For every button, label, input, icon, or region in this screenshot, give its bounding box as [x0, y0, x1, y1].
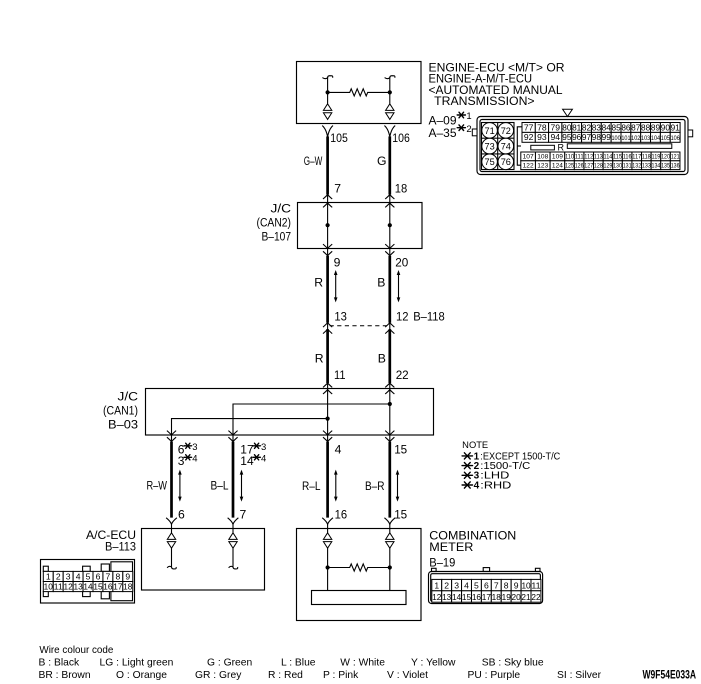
female terminal fork at A/C-ECU pin6	[166, 518, 177, 525]
svg-text:96: 96	[572, 132, 581, 142]
connector symbol triangles right (ECU pin 106)	[386, 104, 394, 120]
svg-text:2: 2	[466, 124, 471, 135]
connector A-09/A-35 pinout drawing	[472, 109, 692, 174]
svg-text:R : Red: R : Red	[268, 670, 303, 681]
svg-text:4: 4	[192, 453, 197, 464]
female terminal fork at A/C-ECU pin7	[228, 518, 239, 525]
svg-text:R–L: R–L	[302, 479, 321, 493]
svg-text:3: 3	[454, 581, 459, 591]
svg-text:85: 85	[611, 122, 620, 132]
female terminal fork pin 105	[322, 126, 333, 137]
svg-text:125: 125	[565, 163, 574, 170]
internal wire left through CAN2	[327, 203, 329, 249]
svg-text:4: 4	[474, 480, 480, 491]
meter internal entry	[389, 524, 391, 533]
svg-text:B–107: B–107	[262, 230, 292, 244]
wire R (13 to 11)	[326, 329, 329, 383]
svg-text:3: 3	[66, 571, 71, 581]
COMBINATION METER unit box	[297, 529, 422, 621]
svg-text:1: 1	[434, 581, 439, 591]
pin label 14 *4	[240, 453, 266, 468]
svg-text:4: 4	[76, 571, 81, 581]
svg-text:4: 4	[335, 442, 342, 456]
meter internal wires to bus bar	[327, 568, 329, 591]
svg-text:108: 108	[537, 154, 548, 161]
svg-text:B–118: B–118	[413, 309, 445, 323]
A/C-ECU label	[86, 529, 136, 554]
internal wire left (ECU)	[327, 77, 329, 103]
CAN1 internal branch lower (to R-W drop)	[172, 419, 328, 435]
meter internal bus bar	[312, 591, 407, 605]
connector designation A-09 *1	[429, 111, 472, 127]
connector chevrons at J/C CAN1 top, left wire	[323, 383, 332, 394]
svg-text:J/C: J/C	[118, 389, 139, 403]
svg-text:B–R: B–R	[365, 479, 385, 493]
svg-text:B–03: B–03	[108, 417, 138, 431]
keyway slot right	[567, 144, 672, 149]
svg-text:11: 11	[334, 368, 346, 382]
svg-text:11: 11	[54, 583, 64, 592]
svg-text:90: 90	[661, 122, 670, 132]
svg-text:16: 16	[472, 593, 482, 602]
inline connector B-118 chevrons right	[385, 323, 394, 334]
svg-text:V : Violet: V : Violet	[387, 670, 428, 681]
svg-text:LG : Light green: LG : Light green	[100, 658, 174, 669]
svg-text:16: 16	[103, 583, 113, 592]
svg-text:1: 1	[466, 111, 471, 122]
wire G-W (pin105 to J/C)	[326, 136, 329, 194]
svg-text:101: 101	[621, 135, 630, 142]
svg-text:109: 109	[552, 154, 563, 161]
svg-text:105: 105	[330, 131, 348, 145]
svg-text:107: 107	[523, 154, 534, 161]
terminal circle 71	[482, 123, 498, 139]
pin row 92-106	[522, 132, 680, 142]
left latch tab	[472, 129, 477, 136]
svg-text:8: 8	[504, 581, 509, 591]
circular terminals grid	[482, 123, 515, 170]
direction arrow B-L	[240, 470, 244, 502]
junction dot on wire B (CAN1)	[388, 402, 392, 406]
svg-text:Y : Yellow: Y : Yellow	[411, 658, 456, 669]
svg-text:7: 7	[240, 508, 247, 522]
pin label 6 *3	[178, 442, 198, 457]
svg-text:121: 121	[671, 154, 680, 161]
svg-text:130: 130	[613, 163, 622, 170]
svg-text:6: 6	[178, 508, 185, 522]
svg-text:71: 71	[485, 125, 495, 136]
svg-text:79: 79	[550, 122, 560, 132]
svg-text:115: 115	[613, 154, 622, 161]
internal pigtail left	[322, 76, 332, 79]
svg-text:75: 75	[485, 156, 495, 167]
svg-text:82: 82	[582, 122, 591, 132]
svg-text:SI : Silver: SI : Silver	[557, 670, 602, 681]
svg-text:74: 74	[501, 141, 511, 152]
svg-text:18: 18	[395, 181, 408, 195]
svg-text:METER: METER	[429, 540, 473, 554]
junction dot right (ECU)	[388, 90, 392, 94]
connector chevrons at J/C CAN1 bottom, B-R wire	[385, 431, 394, 442]
pin row 77-91	[522, 122, 680, 132]
terminal circle 76	[498, 154, 514, 170]
wire colour code legend	[39, 645, 602, 681]
svg-text:14: 14	[83, 583, 93, 592]
connector chevrons at J/C CAN1 bottom, R-L wire	[323, 431, 332, 442]
svg-text:22: 22	[531, 593, 541, 602]
NOTE block	[462, 440, 560, 491]
direction arrow R-W	[178, 470, 182, 502]
svg-text:B–113: B–113	[105, 540, 136, 553]
svg-text:15: 15	[462, 593, 472, 602]
svg-text:O : Orange: O : Orange	[116, 670, 167, 681]
internal pigtail right	[385, 76, 395, 79]
svg-text:102: 102	[631, 135, 640, 142]
svg-text:7: 7	[334, 181, 341, 195]
internal wire right (ECU)	[389, 77, 391, 103]
female terminal fork at meter pin15	[384, 518, 395, 525]
wire B (20 to 12)	[388, 256, 391, 323]
svg-text:89: 89	[651, 122, 660, 132]
ENGINE-ECU unit box	[297, 62, 422, 124]
svg-text:99: 99	[602, 132, 611, 142]
svg-text:15: 15	[394, 508, 407, 522]
connector chevrons at J/C CAN1 bottom, B-L wire	[228, 431, 237, 442]
junction dot right (CAN2)	[388, 223, 392, 227]
svg-text:73: 73	[485, 141, 495, 152]
svg-text:113: 113	[594, 154, 603, 161]
svg-text:93: 93	[537, 132, 547, 142]
svg-text:95: 95	[562, 132, 571, 142]
svg-text:76: 76	[501, 156, 511, 167]
svg-text:G : Green: G : Green	[207, 658, 252, 669]
connector chevrons at J/C CAN2 top, right wire	[385, 195, 394, 208]
svg-text:136: 136	[671, 163, 680, 170]
svg-text:W9F54E033A: W9F54E033A	[643, 668, 697, 682]
svg-text:80: 80	[562, 122, 571, 132]
svg-text:6: 6	[96, 571, 101, 581]
svg-text:14: 14	[240, 454, 254, 468]
tabs	[43, 566, 48, 571]
svg-text:10: 10	[521, 581, 530, 591]
svg-text:4: 4	[261, 453, 266, 464]
connector chevrons at J/C CAN2 bottom, left wire	[323, 244, 332, 256]
svg-text:124: 124	[552, 163, 563, 170]
svg-text:127: 127	[584, 163, 593, 170]
svg-text:13: 13	[334, 309, 347, 323]
svg-text:128: 128	[594, 163, 603, 170]
svg-text:9: 9	[334, 256, 341, 270]
A/C-ECU internal entry pin 6	[171, 524, 173, 533]
svg-text:72: 72	[501, 125, 511, 136]
svg-text:17: 17	[113, 583, 123, 592]
svg-text:B: B	[377, 275, 385, 289]
svg-text:81: 81	[572, 122, 581, 132]
svg-text:92: 92	[524, 132, 534, 142]
pin row 10-18	[43, 582, 133, 592]
A/C-ECU internal entry pin 7	[232, 524, 234, 533]
svg-text:98: 98	[592, 132, 601, 142]
svg-text:105: 105	[661, 135, 670, 142]
junction dot right (meter)	[388, 565, 392, 569]
svg-text:B–L: B–L	[211, 478, 229, 492]
internal wire right through CAN2	[389, 203, 391, 249]
svg-text:97: 97	[582, 132, 591, 142]
svg-text:133: 133	[642, 163, 651, 170]
pin label 3 *4	[178, 453, 198, 468]
svg-text:21: 21	[521, 593, 531, 602]
svg-text:18: 18	[123, 583, 133, 592]
svg-text:2: 2	[444, 581, 449, 591]
svg-text:129: 129	[604, 163, 613, 170]
svg-text:11: 11	[531, 581, 540, 591]
svg-text:116: 116	[623, 154, 632, 161]
COMBINATION METER label	[429, 528, 516, 569]
pin row 1-9	[43, 571, 132, 581]
rail bracket	[517, 127, 521, 165]
svg-text:R: R	[314, 275, 323, 289]
connector chevrons at J/C CAN1 bottom, R-W wire	[167, 431, 176, 442]
svg-text:103: 103	[641, 135, 650, 142]
svg-text:(CAN2): (CAN2)	[257, 216, 292, 230]
connector symbol triangles left (ECU pin 105)	[323, 104, 331, 120]
svg-text:15: 15	[394, 442, 407, 456]
junction dot left (ECU)	[326, 90, 330, 94]
svg-text:84: 84	[602, 122, 611, 132]
svg-text:17: 17	[482, 593, 492, 602]
svg-text:G: G	[377, 154, 386, 168]
svg-text:14: 14	[452, 593, 462, 602]
direction arrow right	[397, 270, 401, 302]
svg-text:88: 88	[641, 122, 650, 132]
svg-text:20: 20	[512, 593, 522, 602]
svg-text:G–W: G–W	[304, 154, 323, 168]
tabs	[432, 568, 437, 571]
svg-text:B : Black: B : Black	[39, 658, 80, 669]
svg-text:12: 12	[432, 593, 442, 602]
J/C CAN2 label	[257, 202, 292, 244]
svg-text:77: 77	[524, 122, 534, 132]
svg-text:22: 22	[396, 368, 409, 382]
svg-text:3: 3	[192, 442, 197, 453]
female terminal fork pin 106	[384, 126, 395, 137]
svg-text:20: 20	[395, 256, 408, 270]
svg-text:112: 112	[584, 154, 593, 161]
svg-text:114: 114	[604, 154, 613, 161]
junction dot on wire R (CAN1)	[326, 417, 330, 421]
svg-text:13: 13	[73, 583, 83, 592]
svg-text:126: 126	[575, 163, 584, 170]
terminal circle 75	[482, 154, 498, 170]
junction dot left (meter)	[326, 565, 330, 569]
direction arrow left	[334, 270, 338, 302]
CAN1 internal branch upper (to B-L drop)	[233, 404, 390, 435]
svg-text:PU : Purple: PU : Purple	[468, 670, 521, 681]
svg-text:91: 91	[671, 122, 680, 132]
svg-text:87: 87	[631, 122, 640, 132]
svg-text:SB : Sky blue: SB : Sky blue	[482, 658, 544, 669]
wire R-W	[170, 442, 173, 518]
svg-text:120: 120	[661, 154, 670, 161]
svg-text:86: 86	[621, 122, 630, 132]
svg-text:100: 100	[611, 135, 620, 142]
terminal circle 73	[482, 138, 498, 154]
svg-text:15: 15	[93, 583, 103, 592]
svg-text:B–19: B–19	[429, 556, 455, 570]
terminating resistor inside meter	[328, 564, 390, 571]
svg-text:3: 3	[178, 454, 185, 468]
J/C CAN1 label	[103, 389, 138, 431]
connector chevrons at J/C CAN1 top, right wire	[385, 383, 394, 394]
svg-text:110: 110	[565, 154, 574, 161]
svg-text:6: 6	[484, 581, 489, 591]
svg-text:122: 122	[523, 163, 534, 170]
keyway slot left	[531, 145, 555, 150]
svg-text:134: 134	[652, 163, 661, 170]
svg-text:BR : Brown: BR : Brown	[39, 670, 91, 681]
pin label 17 *3	[240, 442, 266, 457]
svg-text::RHD: :RHD	[480, 480, 511, 491]
wire R-L	[326, 442, 329, 518]
connector B-113 pinout drawing	[41, 560, 135, 604]
svg-text:7: 7	[494, 581, 499, 591]
svg-text:R–W: R–W	[147, 478, 168, 492]
wire B (12 to 22)	[388, 329, 391, 383]
meter internal entry	[327, 524, 329, 533]
svg-text:NOTE: NOTE	[462, 440, 488, 450]
svg-text:10: 10	[44, 583, 54, 592]
internal wire R through CAN1	[327, 390, 329, 435]
junction dot left (CAN2)	[326, 223, 330, 227]
inline connector B-118 chevrons left	[323, 323, 332, 334]
svg-text:12: 12	[64, 583, 74, 592]
pin row 122-136	[521, 161, 680, 170]
A/C-ECU unit box	[142, 529, 265, 591]
svg-text:L : Blue: L : Blue	[281, 658, 316, 669]
wire B-L	[232, 442, 235, 518]
svg-text:Wire colour code: Wire colour code	[39, 645, 113, 656]
svg-text:106: 106	[392, 131, 410, 145]
svg-text:TRANSMISSION>: TRANSMISSION>	[434, 94, 534, 108]
svg-text:12: 12	[396, 309, 409, 323]
svg-text:13: 13	[442, 593, 452, 602]
svg-text:16: 16	[335, 508, 348, 522]
svg-text:94: 94	[550, 132, 560, 142]
position pointer triangle (pin 80)	[563, 109, 573, 116]
svg-text:104: 104	[651, 135, 660, 142]
svg-text:2: 2	[56, 571, 61, 581]
svg-text:GR : Grey: GR : Grey	[195, 670, 242, 681]
terminal circle 72	[498, 123, 514, 139]
svg-text:A–35: A–35	[429, 126, 457, 140]
connector B-19 pinout drawing	[429, 568, 543, 604]
svg-text:117: 117	[632, 154, 641, 161]
wire G (pin106 to J/C)	[388, 136, 391, 194]
svg-text:1: 1	[46, 571, 51, 581]
svg-text:(CAN1): (CAN1)	[103, 403, 138, 417]
terminating resistor inside ENGINE-ECU	[328, 89, 390, 96]
wire R (9 to 13)	[326, 256, 329, 323]
svg-text:9: 9	[125, 571, 130, 581]
svg-text:8: 8	[115, 571, 120, 581]
svg-text:9: 9	[514, 581, 519, 591]
svg-text:78: 78	[537, 122, 547, 132]
svg-text:5: 5	[474, 581, 479, 591]
svg-text:R: R	[315, 351, 324, 365]
svg-text:P : Pink: P : Pink	[323, 670, 359, 681]
svg-text:W : White: W : White	[340, 658, 385, 669]
connector chevrons at J/C CAN2 top, left wire	[323, 195, 332, 208]
terminal circle 74	[498, 138, 514, 154]
unit name text	[429, 61, 565, 109]
direction arrow R-L	[334, 470, 338, 502]
J/C (CAN2) B-107 joint connector box	[298, 203, 423, 249]
B-118 same-connector dashed tie line	[330, 325, 388, 327]
svg-text:J/C: J/C	[271, 202, 292, 216]
svg-text:131: 131	[623, 163, 632, 170]
wire B-R	[388, 442, 391, 518]
connector designation A-35 *2	[429, 124, 472, 140]
female terminal fork at meter pin16	[322, 518, 333, 525]
connector chevrons at J/C CAN2 bottom, right wire	[385, 244, 394, 256]
svg-text:4: 4	[464, 581, 469, 591]
svg-text:R: R	[557, 143, 564, 153]
svg-text:7: 7	[106, 571, 111, 581]
svg-text:3: 3	[261, 442, 266, 453]
right latch tab	[688, 130, 693, 137]
svg-text:5: 5	[86, 571, 91, 581]
pin row 12-22	[432, 591, 541, 602]
svg-text:B: B	[378, 351, 386, 365]
pin row 107-121	[521, 152, 680, 161]
svg-text:135: 135	[661, 163, 670, 170]
svg-text:83: 83	[592, 122, 601, 132]
right key block	[111, 562, 133, 601]
pin row 1-11	[432, 579, 541, 590]
svg-text:18: 18	[492, 593, 502, 602]
svg-text:119: 119	[652, 154, 661, 161]
direction arrow B-R	[396, 470, 400, 502]
internal wire B through CAN1	[389, 390, 391, 435]
svg-text:19: 19	[502, 593, 512, 602]
svg-text:106: 106	[671, 135, 680, 142]
svg-text:132: 132	[632, 163, 641, 170]
svg-text:123: 123	[537, 163, 548, 170]
svg-text:118: 118	[642, 154, 651, 161]
svg-text:111: 111	[575, 154, 584, 161]
J/C (CAN1) B-03 joint connector box	[146, 389, 434, 436]
